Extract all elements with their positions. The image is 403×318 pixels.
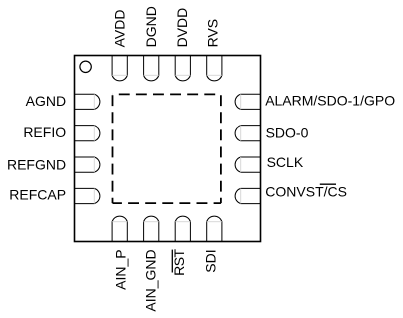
svg-text:RST: RST	[171, 248, 187, 275]
pin AIN_P (bottom 1)	[112, 216, 127, 241]
pin AVDD (top 1)	[112, 56, 127, 81]
svg-text:REFGND: REFGND	[7, 156, 66, 172]
pin DGND (top 2)	[144, 56, 159, 81]
pin REFGND (left 3)	[75, 157, 100, 172]
pin RST (bottom 3)	[175, 216, 190, 241]
svg-text:AIN_GND: AIN_GND	[143, 249, 159, 311]
pin SDI (bottom 4)	[207, 216, 222, 241]
svg-text:REFCAP: REFCAP	[9, 186, 66, 202]
svg-text:REFIO: REFIO	[23, 124, 66, 140]
thermal pad (dashed)	[113, 94, 221, 203]
pin AGND (left 1)	[75, 94, 100, 109]
svg-text:DVDD: DVDD	[174, 8, 190, 48]
svg-text:SDO-0: SDO-0	[266, 125, 309, 141]
pin RVS (top 4)	[207, 56, 222, 81]
svg-text:RVS: RVS	[205, 19, 221, 48]
pin DVDD (top 3)	[175, 56, 190, 81]
pin 1 indicator circle	[80, 61, 91, 72]
pin REFCAP (left 4)	[75, 188, 100, 203]
pin REFIO (left 2)	[75, 126, 100, 141]
pin ALARM/SDO-1/GPO (right 1)	[235, 94, 260, 109]
pin CONVST/CS (right 4)	[235, 188, 260, 203]
svg-text:SDI: SDI	[203, 249, 219, 272]
svg-text:AGND: AGND	[26, 93, 66, 109]
svg-text:AVDD: AVDD	[111, 10, 127, 48]
package body outline	[75, 56, 261, 242]
pin SCLK (right 3)	[235, 157, 260, 172]
pin AIN_GND (bottom 2)	[144, 216, 159, 241]
svg-text:AIN_P: AIN_P	[112, 249, 128, 289]
svg-text:DGND: DGND	[143, 6, 159, 47]
overline over CS	[320, 183, 336, 185]
pin SDO-0 (right 2)	[235, 126, 260, 141]
svg-text:ALARM/SDO-1/GPO: ALARM/SDO-1/GPO	[265, 92, 395, 108]
svg-text:CONVST/CS: CONVST/CS	[265, 183, 347, 199]
svg-text:SCLK: SCLK	[267, 154, 304, 170]
overline over RST (vertical)	[171, 250, 173, 273]
